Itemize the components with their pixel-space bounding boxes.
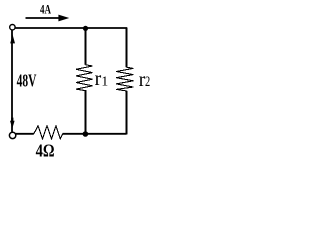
node (bottom junction dot) xyxy=(83,131,89,137)
resistor r1 (zigzag) xyxy=(76,65,93,91)
terminal (bottom-left node) xyxy=(9,132,15,138)
svg-text:4A: 4A xyxy=(40,3,52,17)
svg-text:2: 2 xyxy=(145,74,150,90)
resistor 4ohm (zigzag) xyxy=(34,126,63,139)
wire (bottom, resistor to right corner) xyxy=(63,133,127,135)
svg-text:4Ω: 4Ω xyxy=(36,141,55,161)
svg-text:r: r xyxy=(95,66,102,90)
svg-text:1: 1 xyxy=(101,74,108,89)
wire (top horizontal) xyxy=(15,27,127,29)
wire (right branch lower) xyxy=(126,91,128,135)
label r2 xyxy=(139,67,150,91)
resistor r2 (zigzag) xyxy=(116,67,133,91)
node (top junction dot) xyxy=(83,26,88,31)
arrowhead up (left wire, near top) xyxy=(10,35,15,44)
wire (bottom, terminal to resistor) xyxy=(16,133,34,135)
wire (right branch upper) xyxy=(126,28,128,67)
wire (middle branch lower) xyxy=(85,91,87,135)
svg-text:48V: 48V xyxy=(17,71,37,91)
label r1 xyxy=(95,66,109,90)
wire (left vertical) xyxy=(11,30,13,132)
arrowhead down (left wire, near bottom) xyxy=(10,118,15,129)
terminal (top-left node) xyxy=(10,25,15,30)
current arrow (4A direction) xyxy=(26,15,70,22)
wire (middle branch upper) xyxy=(85,28,87,65)
